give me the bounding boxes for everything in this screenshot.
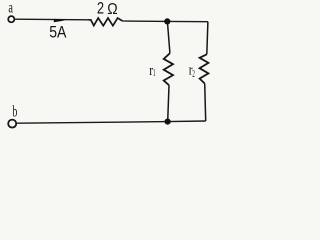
svg-text:b: b (12, 101, 17, 120)
label 5A (49, 23, 67, 42)
svg-text:1: 1 (153, 68, 156, 79)
svg-text:a: a (8, 0, 13, 17)
resistor 2 ohm value label (97, 0, 118, 18)
resistor r2 zigzag (200, 54, 209, 83)
junction dot top node (164, 18, 170, 24)
node b label (12, 101, 17, 120)
wire top-right corner down to r2 (207, 22, 208, 55)
wire resistor to node junction and top-right corner (123, 20, 208, 23)
current arrow 5A (54, 19, 65, 23)
label r2 (189, 62, 195, 80)
wire r1 down to bottom junction (168, 85, 169, 121)
bottom wire b to bottom-right corner (17, 121, 206, 123)
node a label (8, 0, 13, 17)
svg-text:Ω: Ω (107, 1, 117, 18)
terminal a (8, 16, 14, 22)
wire a to resistor 2ohm (15, 18, 89, 21)
terminal b (8, 120, 16, 128)
label r1 (149, 63, 155, 79)
junction dot bottom node (165, 119, 171, 125)
svg-text:5A: 5A (49, 23, 67, 42)
wire junction down to r1 (167, 21, 170, 53)
resistor r1 zigzag (164, 53, 173, 85)
svg-text:2: 2 (97, 0, 104, 18)
svg-text:2: 2 (192, 69, 195, 80)
resistor 2 ohm zigzag (89, 18, 123, 26)
wire r2 down to bottom-right corner (205, 84, 206, 122)
